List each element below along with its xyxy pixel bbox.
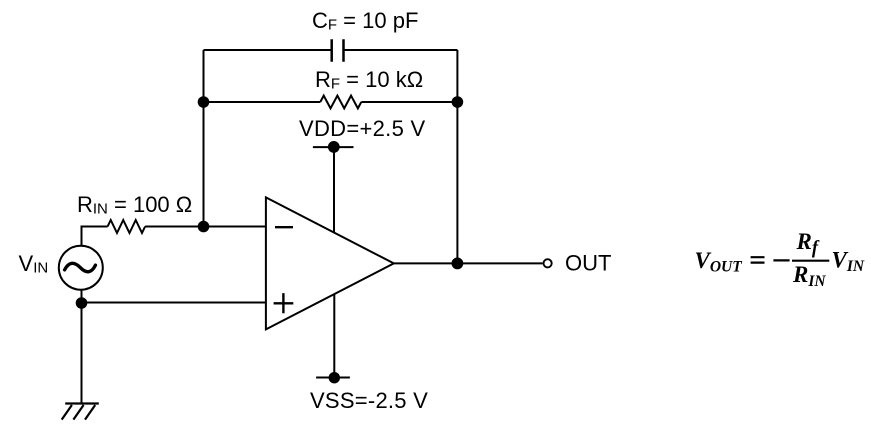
junction node inverting input	[198, 221, 210, 233]
formula fraction bar	[792, 260, 829, 262]
svg-text:RIN = 100 Ω: RIN = 100 Ω	[77, 192, 192, 218]
resistor RF	[320, 96, 361, 109]
inverting input pin mark	[275, 226, 293, 228]
wire VIN bottom to ground	[81, 290, 83, 404]
supply VDD bar	[313, 146, 354, 148]
source VIN	[59, 246, 103, 290]
wire left feedback vertical	[203, 50, 205, 227]
op-amp U1	[266, 197, 394, 329]
junction node VIN bottom	[76, 297, 88, 309]
resistor RIN	[108, 220, 146, 233]
wire right feedback vertical	[456, 50, 458, 263]
junction node VSS	[329, 372, 340, 383]
wire RF branch right	[361, 101, 457, 103]
supply VSS bar	[316, 377, 350, 379]
wire output	[394, 262, 543, 264]
sine symbol	[65, 263, 96, 271]
terminal OUT open circle	[544, 259, 552, 267]
svg-text:VIN: VIN	[832, 248, 865, 276]
svg-text:Rf: Rf	[796, 229, 820, 258]
wire top capacitor branch right	[344, 49, 458, 51]
svg-text:CF = 10 pF: CF = 10 pF	[312, 8, 418, 34]
wire VDD to op-amp	[333, 147, 335, 233]
wire RF branch left	[204, 101, 321, 103]
svg-text:VDD=+2.5 V: VDD=+2.5 V	[299, 116, 426, 141]
formula minus sign	[773, 259, 789, 261]
wire RIN to inverting input	[145, 226, 266, 228]
formula VOUT = -Rf/RIN VIN	[695, 229, 865, 290]
junction node feedback left	[198, 96, 210, 108]
junction node feedback right	[452, 96, 464, 108]
wire from VIN top to RIN	[82, 227, 108, 246]
svg-text:RIN: RIN	[792, 262, 826, 290]
junction node output	[452, 258, 464, 270]
svg-text:RF = 10 kΩ: RF = 10 kΩ	[315, 67, 423, 93]
capacitor CF	[332, 39, 344, 61]
wire op-amp to VSS	[333, 294, 335, 377]
svg-text:VSS=-2.5 V: VSS=-2.5 V	[310, 388, 428, 413]
non-inverting input pin mark	[274, 293, 294, 313]
formula equals sign	[751, 257, 765, 262]
svg-text:VOUT: VOUT	[695, 248, 743, 276]
junction node VDD	[328, 141, 340, 153]
ground	[62, 404, 99, 420]
wire to non-inverting input	[82, 302, 266, 304]
svg-text:VIN: VIN	[19, 251, 49, 277]
wire top capacitor branch left	[204, 49, 332, 51]
svg-text:OUT: OUT	[565, 251, 611, 276]
